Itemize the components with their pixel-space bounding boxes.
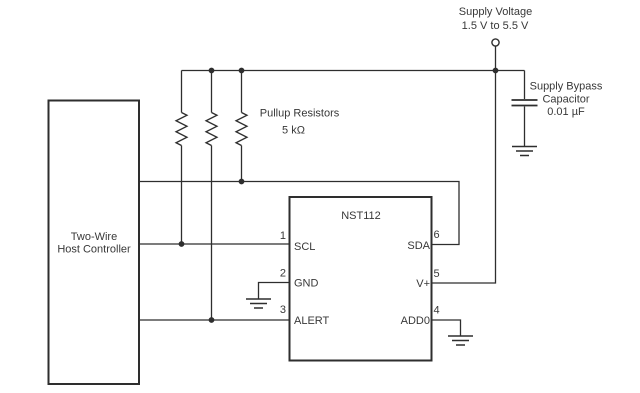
svg-text:GND: GND: [294, 278, 319, 290]
junction R1 / SCL net: [179, 241, 185, 247]
wire rail to capacitor: [524, 71, 526, 100]
svg-text:Supply Bypass: Supply Bypass: [530, 81, 603, 93]
svg-text:1: 1: [280, 230, 286, 242]
svg-text:NST112: NST112: [341, 210, 381, 222]
svg-text:5 kΩ: 5 kΩ: [282, 125, 305, 137]
svg-text:3: 3: [280, 304, 286, 316]
IC U1 NST112: [290, 197, 432, 361]
junction top rail / R3: [239, 68, 245, 74]
svg-text:V+: V+: [416, 278, 430, 290]
pin 2 GND: [259, 268, 319, 299]
svg-text:Pullup Resistors: Pullup Resistors: [260, 108, 340, 120]
svg-text:Host Controller: Host Controller: [57, 244, 131, 256]
ground (GND pin): [246, 299, 271, 308]
resistor R1 (left pullup): [176, 71, 187, 245]
wire ADD0 pin: [432, 320, 461, 336]
svg-text:Capacitor: Capacitor: [542, 94, 589, 106]
svg-text:6: 6: [434, 229, 440, 241]
pin 5 V+: [416, 268, 439, 290]
pin 1 SCL: [280, 230, 316, 253]
svg-text:Two-Wire: Two-Wire: [71, 231, 117, 243]
pin 6 SDA: [407, 229, 439, 252]
pin 4 ADD0: [401, 305, 461, 336]
ground (capacitor): [512, 147, 537, 156]
wire terminal to rail: [495, 46, 497, 71]
wire SDA net: [140, 182, 460, 245]
svg-text:Supply Voltage: Supply Voltage: [459, 6, 532, 18]
svg-text:0.01 µF: 0.01 µF: [547, 106, 585, 118]
resistor R3 (right pullup): [236, 71, 247, 183]
junction R3 / SDA net: [239, 179, 245, 185]
wire SCL net: [140, 243, 290, 245]
svg-text:5: 5: [434, 268, 440, 280]
svg-text:ADD0: ADD0: [401, 315, 430, 327]
pin 3 ALERT: [280, 304, 330, 327]
wire ALERT net: [140, 319, 290, 321]
wire V+ net: [432, 71, 496, 284]
junction top rail / supply: [493, 68, 499, 74]
junction top rail / R2: [209, 68, 215, 74]
svg-text:4: 4: [434, 305, 440, 317]
supply terminal: [459, 6, 532, 71]
svg-text:SDA: SDA: [407, 240, 430, 252]
pullup resistors value label: [260, 108, 340, 137]
wire supply top rail: [182, 70, 525, 72]
host controller box U2: [49, 101, 140, 385]
wire GND pin: [259, 283, 290, 299]
svg-text:ALERT: ALERT: [294, 315, 330, 327]
junction R2 / ALERT net: [209, 317, 215, 323]
resistor R2 (middle pullup): [206, 71, 217, 321]
capacitor C1: [512, 71, 603, 147]
svg-text:SCL: SCL: [294, 241, 315, 253]
svg-text:1.5 V to 5.5 V: 1.5 V to 5.5 V: [462, 20, 529, 32]
ground (ADD0 pin): [448, 336, 473, 345]
svg-text:2: 2: [280, 268, 286, 280]
